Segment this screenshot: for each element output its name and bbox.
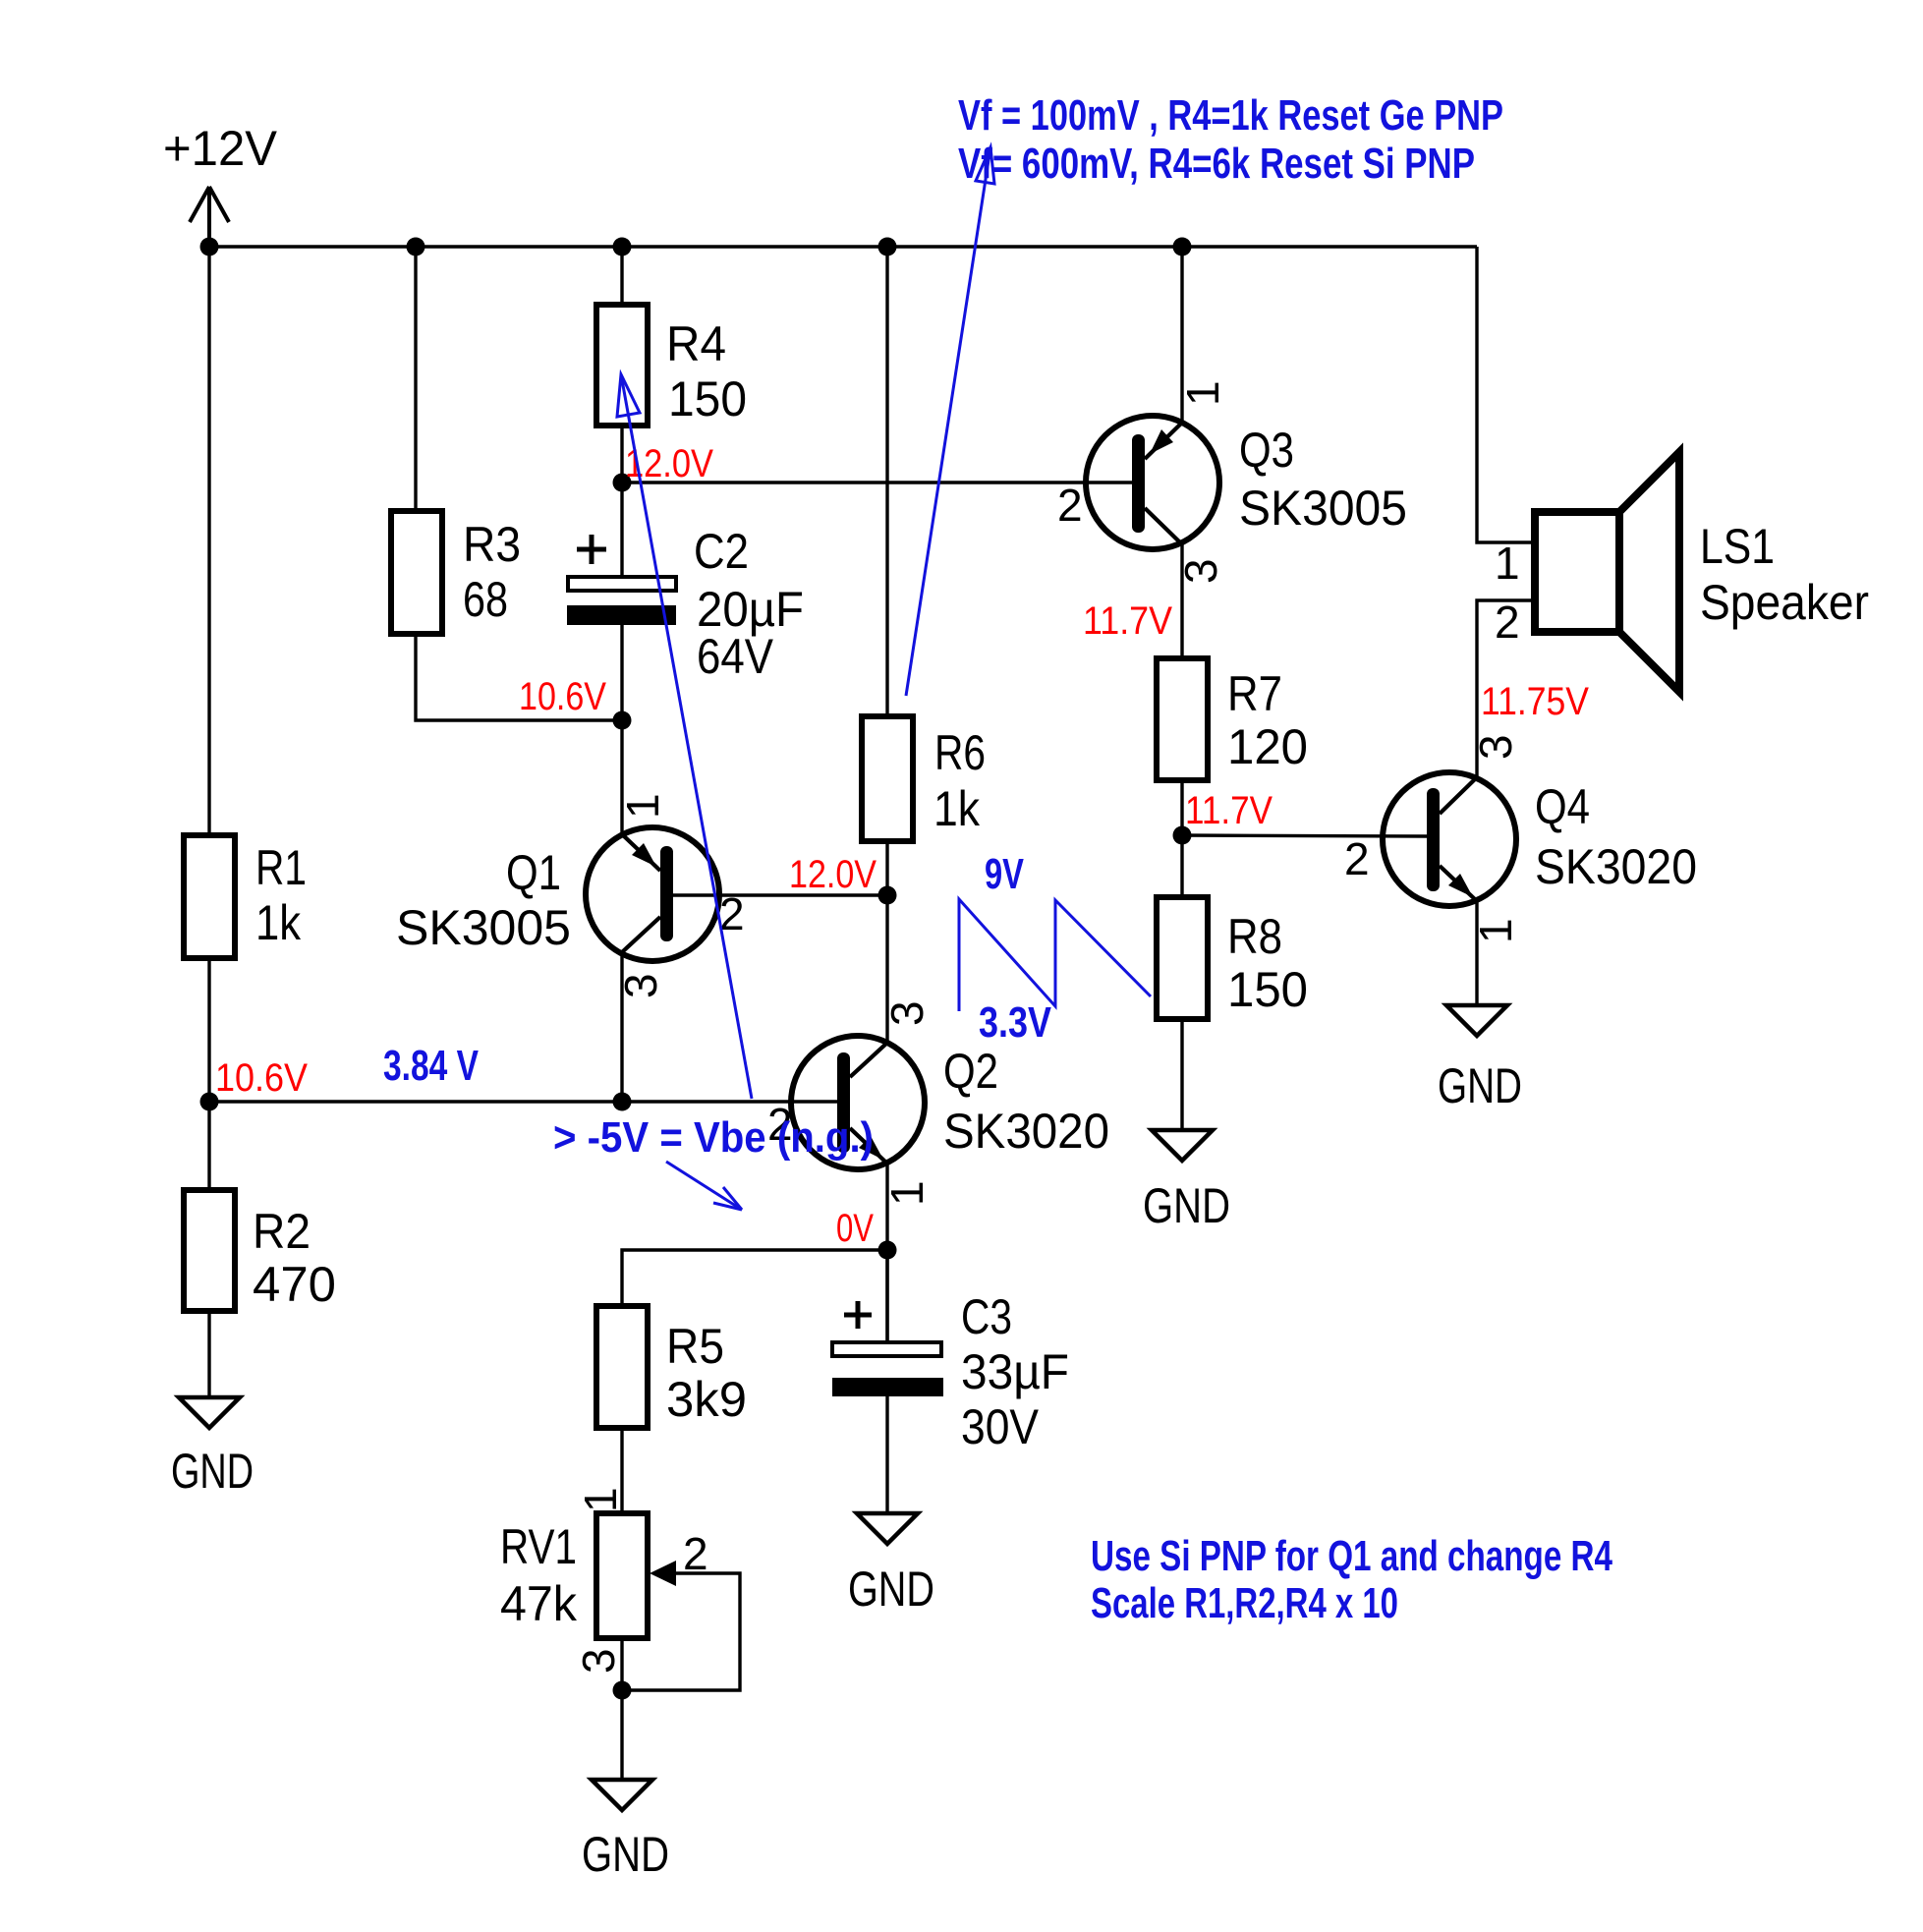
annotation blue text Vf line 2 [958,140,1475,188]
resistor R8 [1157,897,1308,1019]
ground under R2 [171,1397,254,1499]
wire rail to R6 top [885,247,888,716]
svg-text:33µF: 33µF [961,1344,1069,1399]
node dot rail at R6 [878,238,897,256]
svg-text:Q3: Q3 [1239,423,1294,478]
svg-text:SK3020: SK3020 [1535,839,1697,894]
svg-text:GND: GND [582,1827,669,1882]
svg-text:GND: GND [1143,1178,1230,1233]
wire left node to Q2 base [209,1100,837,1103]
svg-text:1: 1 [1495,538,1520,589]
node dot rail at R3 [407,238,425,256]
speaker LS1 [1495,452,1869,692]
resistor R4 [596,305,747,426]
voltage label 11.7V at node [1185,789,1273,832]
annotation blue text Vbe [553,1113,874,1162]
svg-text:2: 2 [1495,597,1520,648]
svg-text:R6: R6 [934,725,986,780]
wire R3 bottom to C2 node [416,634,622,720]
annotation blue text Vf line 1 [958,91,1503,140]
svg-text:R8: R8 [1227,909,1282,964]
annotation blue arrow to R6 node [906,147,994,696]
svg-text:11.75V: 11.75V [1481,680,1589,723]
resistor R2 [184,1190,336,1312]
svg-text:> -5V = Vbe (n.g.): > -5V = Vbe (n.g.) [553,1113,874,1162]
svg-text:470: 470 [253,1257,336,1312]
wire RV1 bottom to ground [620,1638,623,1780]
node dot Q1 base / R6 bottom [878,886,897,905]
transistor Q3 [1057,380,1407,584]
svg-text:2: 2 [1344,833,1370,884]
svg-text:SK3005: SK3005 [396,900,571,955]
svg-text:Vf = 100mV , R4=1k Reset Ge P: Vf = 100mV , R4=1k Reset Ge PNP [958,91,1503,140]
transistor Q4 [1344,734,1697,943]
annotation blue text 9V [985,850,1024,898]
svg-text:R1: R1 [255,840,307,895]
wire R5 bottom to RV1 [620,1428,623,1513]
capacitor C3 [832,1289,1069,1454]
wire R7 bottom to node [1180,780,1183,897]
annotation blue arrow below Vbe [666,1162,742,1210]
annotation blue text Use Si PNP [1091,1532,1612,1580]
svg-text:R3: R3 [463,517,521,572]
svg-text:Use Si PNP for Q1 and change R: Use Si PNP for Q1 and change R4 [1091,1532,1612,1580]
wire Q1 base to node [673,893,887,896]
svg-text:LS1: LS1 [1700,519,1775,574]
wire Q2 emitter to 0V node [885,1164,888,1342]
svg-text:RV1: RV1 [500,1519,577,1574]
svg-text:10.6V: 10.6V [215,1056,308,1100]
svg-text:Q2: Q2 [943,1044,998,1099]
transistor Q2 [767,1000,1109,1206]
wire R1 bottom to node [207,958,210,1190]
wire node to Q4 base [1182,835,1427,836]
resistor R1 [184,835,307,958]
wire speaker pin2 down to Q4 collector [1477,600,1535,777]
svg-text:3.3V: 3.3V [979,998,1052,1047]
svg-text:1k: 1k [933,781,981,836]
svg-text:2: 2 [683,1528,708,1579]
wire 0V node to R5 [622,1250,887,1306]
transistor Q1 [396,793,745,998]
svg-text:R2: R2 [253,1204,311,1259]
svg-text:150: 150 [1227,962,1308,1017]
ground under RV1 [582,1780,669,1882]
wire rail right end down to speaker pin1 [1477,247,1535,542]
wire RV1 wiper loop [622,1573,740,1690]
svg-text:1: 1 [1177,380,1228,406]
voltage label 10.6V left [215,1056,308,1100]
voltage label 11.75V [1481,680,1589,723]
annotation blue text 3.3V [979,998,1052,1047]
svg-text:30V: 30V [961,1399,1040,1454]
wire Q1 emitter down to node [620,952,623,1102]
svg-text:3.84 V: 3.84 V [383,1042,479,1090]
resistor R7 [1157,658,1308,780]
annotation blue text 3.84 V [383,1042,479,1090]
svg-text:GND: GND [848,1562,934,1617]
resistor R5 [596,1306,747,1428]
svg-text:R5: R5 [666,1319,724,1374]
voltage label 12.0V at Q1 base [789,853,877,896]
wire C2 bottom to 10.6V node [620,625,623,835]
svg-text:GND: GND [1438,1058,1522,1113]
svg-text:120: 120 [1227,719,1308,774]
resistor R6 [862,716,986,841]
svg-text:11.7V: 11.7V [1083,599,1172,643]
node dot rail at R1 [200,238,219,256]
wire Q3 collector to R7 [1180,544,1183,658]
svg-text:12.0V: 12.0V [789,853,877,896]
svg-text:0V: 0V [836,1207,874,1250]
node dot rail at Q3 [1173,238,1192,256]
voltage label 12.0V at R4 [625,442,713,485]
wire rail to R3 top [414,247,417,511]
svg-text:47k: 47k [500,1576,578,1631]
annotation blue text Scale [1091,1579,1398,1627]
voltage label 11.7V at Q3 [1083,599,1172,643]
svg-text:Scale R1,R2,R4 x 10: Scale R1,R2,R4 x 10 [1091,1579,1398,1627]
svg-text:R7: R7 [1227,666,1282,721]
svg-text:Q1: Q1 [506,845,561,900]
svg-text:1: 1 [617,793,668,819]
svg-text:SK3005: SK3005 [1239,481,1407,536]
wire 0V node to C3 [885,1250,888,1342]
svg-text:Speaker: Speaker [1700,575,1869,630]
ground under R8 [1143,1130,1230,1233]
svg-text:11.7V: 11.7V [1185,789,1273,832]
node A dot R1/R2 [200,1093,219,1111]
wire node to C2 top [620,483,623,577]
svg-text:150: 150 [668,371,747,426]
svg-text:1: 1 [881,1180,933,1206]
ground under Q4 [1438,1005,1522,1113]
svg-text:2: 2 [1057,480,1083,531]
svg-text:64V: 64V [697,629,774,684]
node dot 10.6V under C2 [613,711,632,730]
wire R8 bottom to ground [1180,1019,1183,1130]
svg-text:9V: 9V [985,850,1024,898]
node dot R7/R8/Q4 [1173,826,1192,845]
voltage label 10.6V at C2 [519,675,606,718]
capacitor C2 [567,524,804,684]
wire node to Q3 base [622,481,1132,483]
wire rail to R1 top [207,247,210,835]
voltage label 0V [836,1207,874,1250]
node dot Q1 emitter / Q2 base [613,1093,632,1111]
wire top power rail [209,245,1477,248]
node dot RV1 bottom [613,1681,632,1700]
svg-text:3: 3 [573,1648,624,1674]
svg-text:GND: GND [171,1444,254,1499]
wire R2 bottom to ground [207,1311,210,1397]
svg-text:+12V: +12V [163,121,278,176]
svg-text:C2: C2 [694,524,749,579]
node dot rail at R4 [613,238,632,256]
svg-text:10.6V: 10.6V [519,675,606,718]
wire Q4 emitter to ground [1475,901,1478,1005]
svg-text:Q4: Q4 [1535,779,1590,834]
svg-text:R4: R4 [666,316,726,371]
potentiometer RV1 [500,1487,708,1674]
svg-text:3: 3 [881,1000,933,1026]
power +12V symbol [190,187,229,247]
wire R4 bottom to 12.0V node [620,426,623,483]
wire rail to R4 top [620,247,623,305]
resistor R3 [391,511,521,634]
svg-text:1: 1 [575,1487,626,1512]
node dot 12.0V under R4 [613,474,632,492]
svg-text:3k9: 3k9 [666,1372,747,1427]
svg-text:Vf= 600mV, R4=6k Reset Si PN: Vf= 600mV, R4=6k Reset Si PNP [958,140,1475,188]
annotation blue sawtooth waveform [959,899,1151,1011]
wire C3 bottom to ground [885,1396,888,1513]
wire rail to Q3 emitter [1180,247,1183,423]
ground under C3 [848,1513,934,1617]
svg-text:68: 68 [463,572,508,627]
wire R6 bottom to Q2 collector [885,841,888,1043]
svg-text:1k: 1k [255,895,302,950]
svg-text:C3: C3 [961,1289,1012,1344]
svg-text:SK3020: SK3020 [943,1104,1109,1159]
annotation blue arrow to R4 [617,374,752,1099]
+12V label [163,121,278,176]
node dot 0V [878,1241,897,1260]
